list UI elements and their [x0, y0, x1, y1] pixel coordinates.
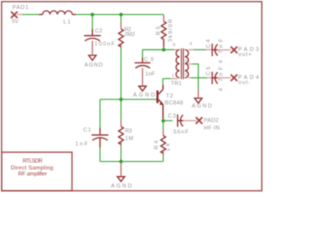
- svg-text:4: 4: [190, 41, 193, 46]
- svg-text:AGND: AGND: [111, 184, 132, 190]
- svg-text:C2: C2: [95, 29, 102, 35]
- svg-text:C5: C5: [206, 67, 212, 76]
- svg-text:out-: out-: [238, 80, 250, 86]
- svg-text:C3: C3: [168, 113, 176, 119]
- svg-text:R3: R3: [125, 128, 132, 134]
- svg-text:1nF: 1nF: [75, 142, 88, 148]
- svg-text:RTLSDR: RTLSDR: [23, 159, 43, 165]
- svg-text:AGND: AGND: [192, 103, 212, 109]
- svg-text:PAD1: PAD1: [12, 5, 28, 11]
- svg-text:R4: R4: [154, 141, 160, 150]
- svg-text:56nF: 56nF: [174, 130, 190, 136]
- svg-text:1k: 1k: [166, 143, 172, 151]
- svg-text:1nF: 1nF: [145, 72, 155, 78]
- svg-text:PAD2: PAD2: [204, 118, 219, 124]
- svg-text:C6: C6: [144, 57, 154, 63]
- svg-text:HF IN: HF IN: [204, 126, 220, 132]
- svg-text:AGND: AGND: [133, 92, 155, 98]
- svg-text:1M: 1M: [125, 136, 134, 142]
- svg-text:5V: 5V: [12, 19, 19, 25]
- svg-text:L1: L1: [63, 19, 70, 25]
- svg-text:AGND: AGND: [84, 62, 102, 68]
- svg-text:4.7nF: 4.7nF: [218, 38, 224, 63]
- svg-text:100nF: 100nF: [95, 41, 116, 47]
- svg-text:2M2: 2M2: [124, 32, 135, 38]
- svg-text:out+: out+: [238, 52, 251, 58]
- svg-text:C4: C4: [206, 39, 212, 48]
- svg-text:TR1: TR1: [171, 81, 182, 87]
- svg-text:R5: R5: [156, 26, 162, 35]
- svg-text:4.7nF: 4.7nF: [218, 66, 224, 91]
- svg-text:RF amplifier: RF amplifier: [18, 172, 47, 178]
- svg-text:3k9/0R: 3k9/0R: [168, 19, 174, 42]
- svg-text:T2: T2: [166, 93, 173, 99]
- svg-text:Direct Sampling: Direct Sampling: [11, 165, 54, 171]
- svg-text:1: 1: [172, 72, 175, 77]
- svg-text:BC848: BC848: [165, 100, 183, 106]
- svg-text:C1: C1: [83, 128, 91, 134]
